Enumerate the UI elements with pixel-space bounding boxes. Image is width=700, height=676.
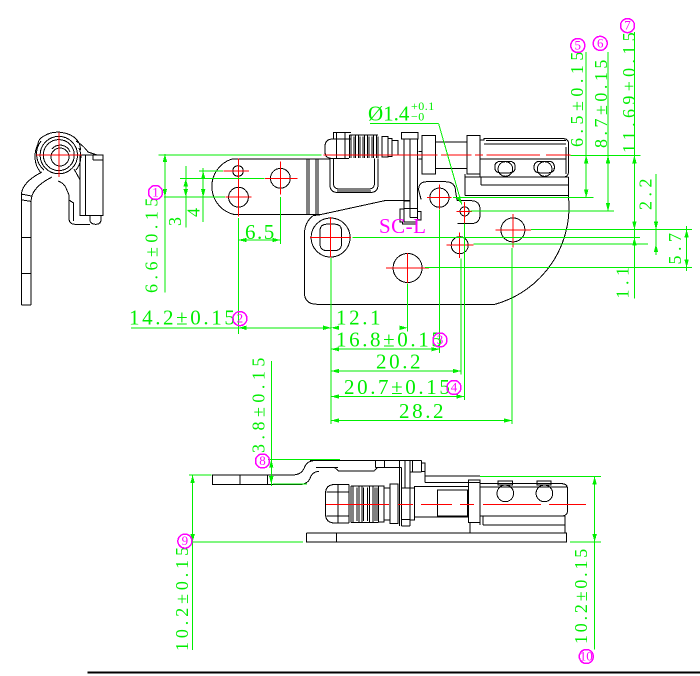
svg-text:4: 4 xyxy=(184,204,204,218)
svg-text:20.2: 20.2 xyxy=(376,350,423,374)
inner web below boss xyxy=(58,181,90,224)
3.8 arrows xyxy=(269,460,273,468)
bottom plate outline xyxy=(495,195,569,304)
washer after bracket xyxy=(418,151,422,153)
ext below middle hole xyxy=(407,284,409,332)
bracket column (side) xyxy=(398,461,400,526)
big hole horiz xyxy=(225,196,251,198)
svg-text:14.2±0.15: 14.2±0.15 xyxy=(129,306,237,330)
shaft xyxy=(435,142,467,168)
boss-to-block join xyxy=(76,141,97,155)
balloon 2 xyxy=(233,312,247,326)
washers (side) xyxy=(379,486,385,522)
12.1 arrows xyxy=(331,326,339,330)
bottom base strip xyxy=(307,533,567,542)
svg-text:12.1: 12.1 xyxy=(336,306,383,330)
16.8 arrows xyxy=(331,347,339,351)
main view axis centerline xyxy=(324,154,571,156)
svg-text:−0: −0 xyxy=(411,110,425,124)
center bracket xyxy=(402,132,419,139)
dim 12.1 line shares y with 14.2; 16.8 etc xyxy=(331,348,439,350)
ext below right hole xyxy=(279,197,281,244)
svg-text:3: 3 xyxy=(165,213,185,227)
ext below left holes xyxy=(238,218,240,334)
dim 3 vertical xyxy=(185,166,187,228)
ext below lobe hole xyxy=(438,210,440,353)
dim 4 vertical xyxy=(202,168,204,222)
svg-text:3: 3 xyxy=(437,332,444,347)
svg-text:6: 6 xyxy=(597,35,604,50)
U loop of spring xyxy=(330,158,378,192)
svg-text:1: 1 xyxy=(152,185,159,200)
middle hole cross xyxy=(386,267,429,269)
svg-text:SC-L: SC-L xyxy=(379,214,427,238)
1.1 arrow below xyxy=(632,238,636,246)
svg-text:2.2: 2.2 xyxy=(636,174,656,210)
bracket foot clip xyxy=(400,209,404,222)
right block xyxy=(480,139,569,178)
under pocket xyxy=(335,467,378,471)
dim 3.8 vertical (bottom view) xyxy=(270,361,272,486)
plate hole big left xyxy=(229,187,249,207)
left flange bar xyxy=(212,475,267,485)
svg-text:9: 9 xyxy=(182,533,189,548)
dim 6.5 line xyxy=(239,239,281,241)
plate right cells xyxy=(409,461,411,472)
svg-text:6.5±0.15: 6.5±0.15 xyxy=(567,47,587,147)
plate hole right xyxy=(271,168,291,188)
svg-text:2: 2 xyxy=(237,311,244,326)
top plate xyxy=(310,460,421,462)
hex hole cross xyxy=(310,237,351,239)
arm outer xyxy=(21,172,42,305)
svg-text:28.2: 28.2 xyxy=(399,399,446,423)
balloon 3 xyxy=(433,333,447,347)
svg-text:20.7±0.15: 20.7±0.15 xyxy=(344,375,452,399)
right 10.2 vertical xyxy=(594,477,596,650)
flange (side) xyxy=(469,480,481,522)
10.2 right arrows xyxy=(592,477,596,485)
ext below tab hole xyxy=(463,223,465,400)
lobe hole cross xyxy=(427,197,451,199)
small hole in tab xyxy=(460,207,469,216)
14.2 arrows xyxy=(239,326,247,330)
svg-text:8.7±0.15: 8.7±0.15 xyxy=(591,56,611,148)
right hole cross xyxy=(496,229,532,231)
right 11.69 arrows xyxy=(632,155,636,163)
svg-text:8: 8 xyxy=(259,453,266,468)
right side ext lines xyxy=(453,197,594,199)
svg-text:10: 10 xyxy=(580,649,593,664)
plate hole small top xyxy=(233,166,244,177)
spring cap xyxy=(325,139,351,158)
hex hole outer xyxy=(311,218,350,257)
ext from top hole left xyxy=(199,170,223,172)
svg-text:5.7: 5.7 xyxy=(665,229,685,265)
washer right of column xyxy=(410,488,414,520)
svg-text:6.6±0.15: 6.6±0.15 xyxy=(142,193,162,293)
Z step up to plate xyxy=(267,461,313,475)
right 10.2 ext top xyxy=(480,476,601,478)
hole in upper lobe xyxy=(430,188,449,207)
boss outer profile xyxy=(44,132,80,152)
right 6.5 arrows xyxy=(584,155,588,163)
dim 3 arrows xyxy=(184,178,188,186)
svg-text:1.1: 1.1 xyxy=(613,263,633,299)
bottom view centerline xyxy=(326,503,586,505)
ext below right hole xyxy=(511,248,513,424)
strips below block xyxy=(483,515,565,517)
balloon 6 xyxy=(593,36,607,50)
leader dia 1.4 xyxy=(370,123,439,125)
arm bottom xyxy=(21,304,31,306)
ext flange top left xyxy=(189,474,211,476)
svg-text:Ø1.4: Ø1.4 xyxy=(368,102,410,126)
boss circles xyxy=(40,136,77,173)
hex hole inner xyxy=(320,224,342,250)
ext flange bottom xyxy=(273,483,307,485)
flange xyxy=(467,135,480,174)
tube/shaft (side) xyxy=(414,486,468,517)
dim 14.2 line xyxy=(131,327,331,329)
balloon 7 xyxy=(621,19,635,33)
top small hole horiz xyxy=(223,170,249,172)
svg-text:10.2±0.15: 10.2±0.15 xyxy=(571,546,591,644)
block right xyxy=(80,155,103,215)
screw slot left xyxy=(495,161,515,172)
tab hole cross xyxy=(457,210,472,212)
right block (side) xyxy=(480,484,567,516)
arm inner xyxy=(31,177,52,305)
ext below hex xyxy=(330,258,332,424)
dim 6.5 arrows xyxy=(239,238,247,242)
svg-text:4: 4 xyxy=(451,380,458,395)
small lower hole cross xyxy=(447,244,474,246)
right 8.7 arrows xyxy=(606,155,610,163)
spring coil rings xyxy=(349,135,378,158)
leader arrow xyxy=(457,196,462,204)
balloon 10 xyxy=(579,650,593,664)
balloon 4 xyxy=(447,381,461,395)
svg-text:7: 7 xyxy=(624,18,631,33)
left view boss crosshair xyxy=(36,154,82,156)
5.7 arrows xyxy=(684,230,688,238)
right dim verticals xyxy=(585,52,587,198)
screw domes xyxy=(497,485,514,502)
small hole lower xyxy=(451,237,468,254)
block lower strips xyxy=(465,176,569,178)
svg-text:16.8±0.15: 16.8±0.15 xyxy=(336,328,444,352)
screw slot right xyxy=(534,161,554,172)
ext from right hole left xyxy=(180,177,265,179)
small tab lobe xyxy=(457,201,480,224)
right hole cross xyxy=(265,177,298,179)
28.2 arrows xyxy=(331,418,339,422)
svg-text:11.69±0.15: 11.69±0.15 xyxy=(619,28,639,153)
ext bottom edge left xyxy=(193,541,303,543)
block bottom round tab xyxy=(90,215,101,224)
ext line centerline level right xyxy=(571,154,641,156)
dim 4 arrows xyxy=(201,171,205,179)
washers right of coil xyxy=(382,136,388,157)
upper lobe around hole xyxy=(419,182,458,201)
arm bands xyxy=(21,236,31,238)
svg-text:6.5: 6.5 xyxy=(245,220,276,244)
ext below small lower hole xyxy=(460,259,462,375)
coil rings (side) xyxy=(351,486,378,523)
svg-text:10.2±0.15: 10.2±0.15 xyxy=(172,543,192,651)
middle hole xyxy=(393,254,422,283)
lower shelf right of step xyxy=(425,475,480,477)
balloon 5 xyxy=(571,39,585,53)
balloon 9 xyxy=(178,534,192,548)
ext line centerline level left xyxy=(159,154,322,156)
balloon 8 xyxy=(256,454,270,468)
left plate holes vertical centerline xyxy=(237,158,239,216)
right hole xyxy=(501,218,525,242)
2.2 arrows outside xyxy=(654,222,658,230)
ext top surface (bottom view) xyxy=(268,459,340,461)
hex cap (side) xyxy=(325,485,349,524)
6.6 dim arrows xyxy=(163,154,167,162)
upper plate xyxy=(212,159,235,215)
20.2 arrows xyxy=(331,369,339,373)
20.7 arrows xyxy=(331,394,339,398)
right ext bottom xyxy=(570,541,601,543)
dim 10.2 left vertical xyxy=(192,475,194,650)
10.2 left arrows xyxy=(190,475,194,483)
svg-text:3.8±0.15: 3.8±0.15 xyxy=(249,353,269,453)
ext from big hole left xyxy=(164,196,225,198)
dim 6.6 vertical xyxy=(164,154,166,292)
balloon 1 xyxy=(149,186,163,200)
svg-text:5: 5 xyxy=(575,38,582,53)
